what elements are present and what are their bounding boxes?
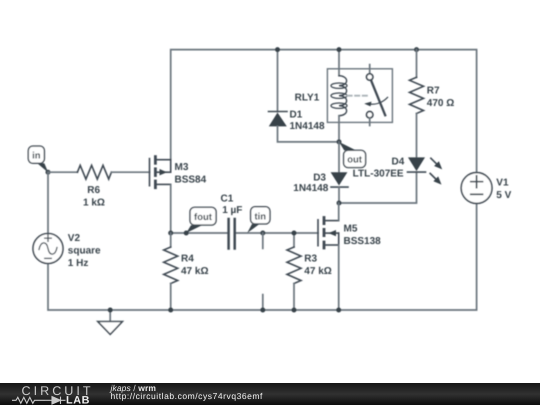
svg-text:47 kΩ: 47 kΩ [181, 266, 208, 277]
junction mid rail at M3/R4 [168, 231, 173, 236]
svg-text:1N4148: 1N4148 [290, 121, 325, 132]
svg-text:fout: fout [194, 212, 213, 223]
svg-text:square: square [68, 246, 101, 257]
resistor R3 [287, 233, 332, 310]
svg-text:D4: D4 [392, 156, 405, 167]
svg-text:R4: R4 [181, 253, 194, 264]
resistor R6 [77, 165, 111, 208]
junction at M5 drain [337, 201, 342, 206]
svg-text:V1: V1 [496, 178, 509, 189]
svg-text:47 kΩ: 47 kΩ [304, 266, 331, 277]
voltage source V1 [461, 173, 511, 204]
CircuitLab footer bar [0, 383, 540, 405]
junction R4 bottom [168, 308, 173, 313]
wire D3/D4/M5 junction rail [339, 172, 417, 203]
node flag tin [247, 207, 270, 233]
node flag in [28, 146, 50, 175]
node flag out [339, 142, 366, 168]
junction R3 top [292, 231, 297, 236]
junction M5 source bottom [336, 308, 341, 313]
svg-text:M5: M5 [344, 224, 358, 235]
svg-text:470 Ω: 470 Ω [427, 98, 454, 109]
svg-text:1 Hz: 1 Hz [68, 258, 89, 269]
capacitor C1 [221, 194, 243, 249]
junction top rail at R7 [414, 47, 419, 52]
voltage source V2 [33, 233, 101, 269]
wire R6 to M3 gate [111, 171, 149, 173]
svg-text:D3: D3 [313, 173, 326, 184]
svg-text:BSS84: BSS84 [175, 174, 207, 185]
junction tin stub [260, 231, 265, 236]
svg-text:1 kΩ: 1 kΩ [83, 198, 105, 209]
svg-text:R3: R3 [304, 253, 317, 264]
junction top rail at D1 [275, 47, 280, 52]
svg-text:1 µF: 1 µF [222, 205, 242, 216]
wire stub above bottom rail [262, 295, 264, 310]
transistor M3 [150, 155, 207, 189]
node flag fout [186, 207, 216, 233]
junction fout anchor [184, 231, 189, 236]
svg-text:1N4148: 1N4148 [293, 183, 328, 194]
svg-text:M3: M3 [175, 162, 189, 173]
wire mid rail [171, 232, 229, 234]
svg-text:5 V: 5 V [496, 190, 511, 201]
svg-text:D1: D1 [290, 110, 303, 121]
resistor R7 [410, 50, 455, 158]
relay coil [338, 50, 340, 76]
svg-text:RLY1: RLY1 [295, 93, 320, 104]
svg-text:BSS138: BSS138 [344, 236, 382, 247]
svg-text:tin: tin [254, 211, 266, 222]
transistor M5 [318, 203, 381, 310]
wire top rail [171, 50, 477, 173]
svg-text:LTL-307EE: LTL-307EE [353, 169, 404, 180]
junction out node [337, 139, 342, 144]
junction stub bottom [260, 308, 265, 313]
resistor R4 [164, 233, 209, 310]
junction top rail at coil [337, 47, 342, 52]
wire V2 column [47, 172, 49, 233]
diode D3 [293, 142, 348, 203]
svg-text:R7: R7 [427, 86, 440, 97]
wire M3 drain down to mid rail [170, 184, 172, 233]
LED D4 [353, 156, 443, 184]
ground [98, 310, 123, 334]
svg-text:C1: C1 [221, 194, 234, 205]
svg-text:R6: R6 [87, 185, 100, 196]
svg-text:http://circuitlab.com/cys74rvq: http://circuitlab.com/cys74rvq36emf [111, 391, 264, 401]
svg-text:LAB: LAB [66, 395, 90, 405]
wire in to R6 [48, 171, 77, 173]
svg-text:out: out [347, 155, 363, 166]
diode D1 [269, 50, 340, 142]
wire stub below tin [262, 233, 264, 248]
relay RLY1 [295, 50, 393, 142]
svg-text:V2: V2 [68, 233, 81, 244]
relay switch [369, 65, 371, 74]
junction ground [108, 308, 113, 313]
svg-text:in: in [32, 151, 41, 162]
junction R3 bottom [292, 308, 297, 313]
